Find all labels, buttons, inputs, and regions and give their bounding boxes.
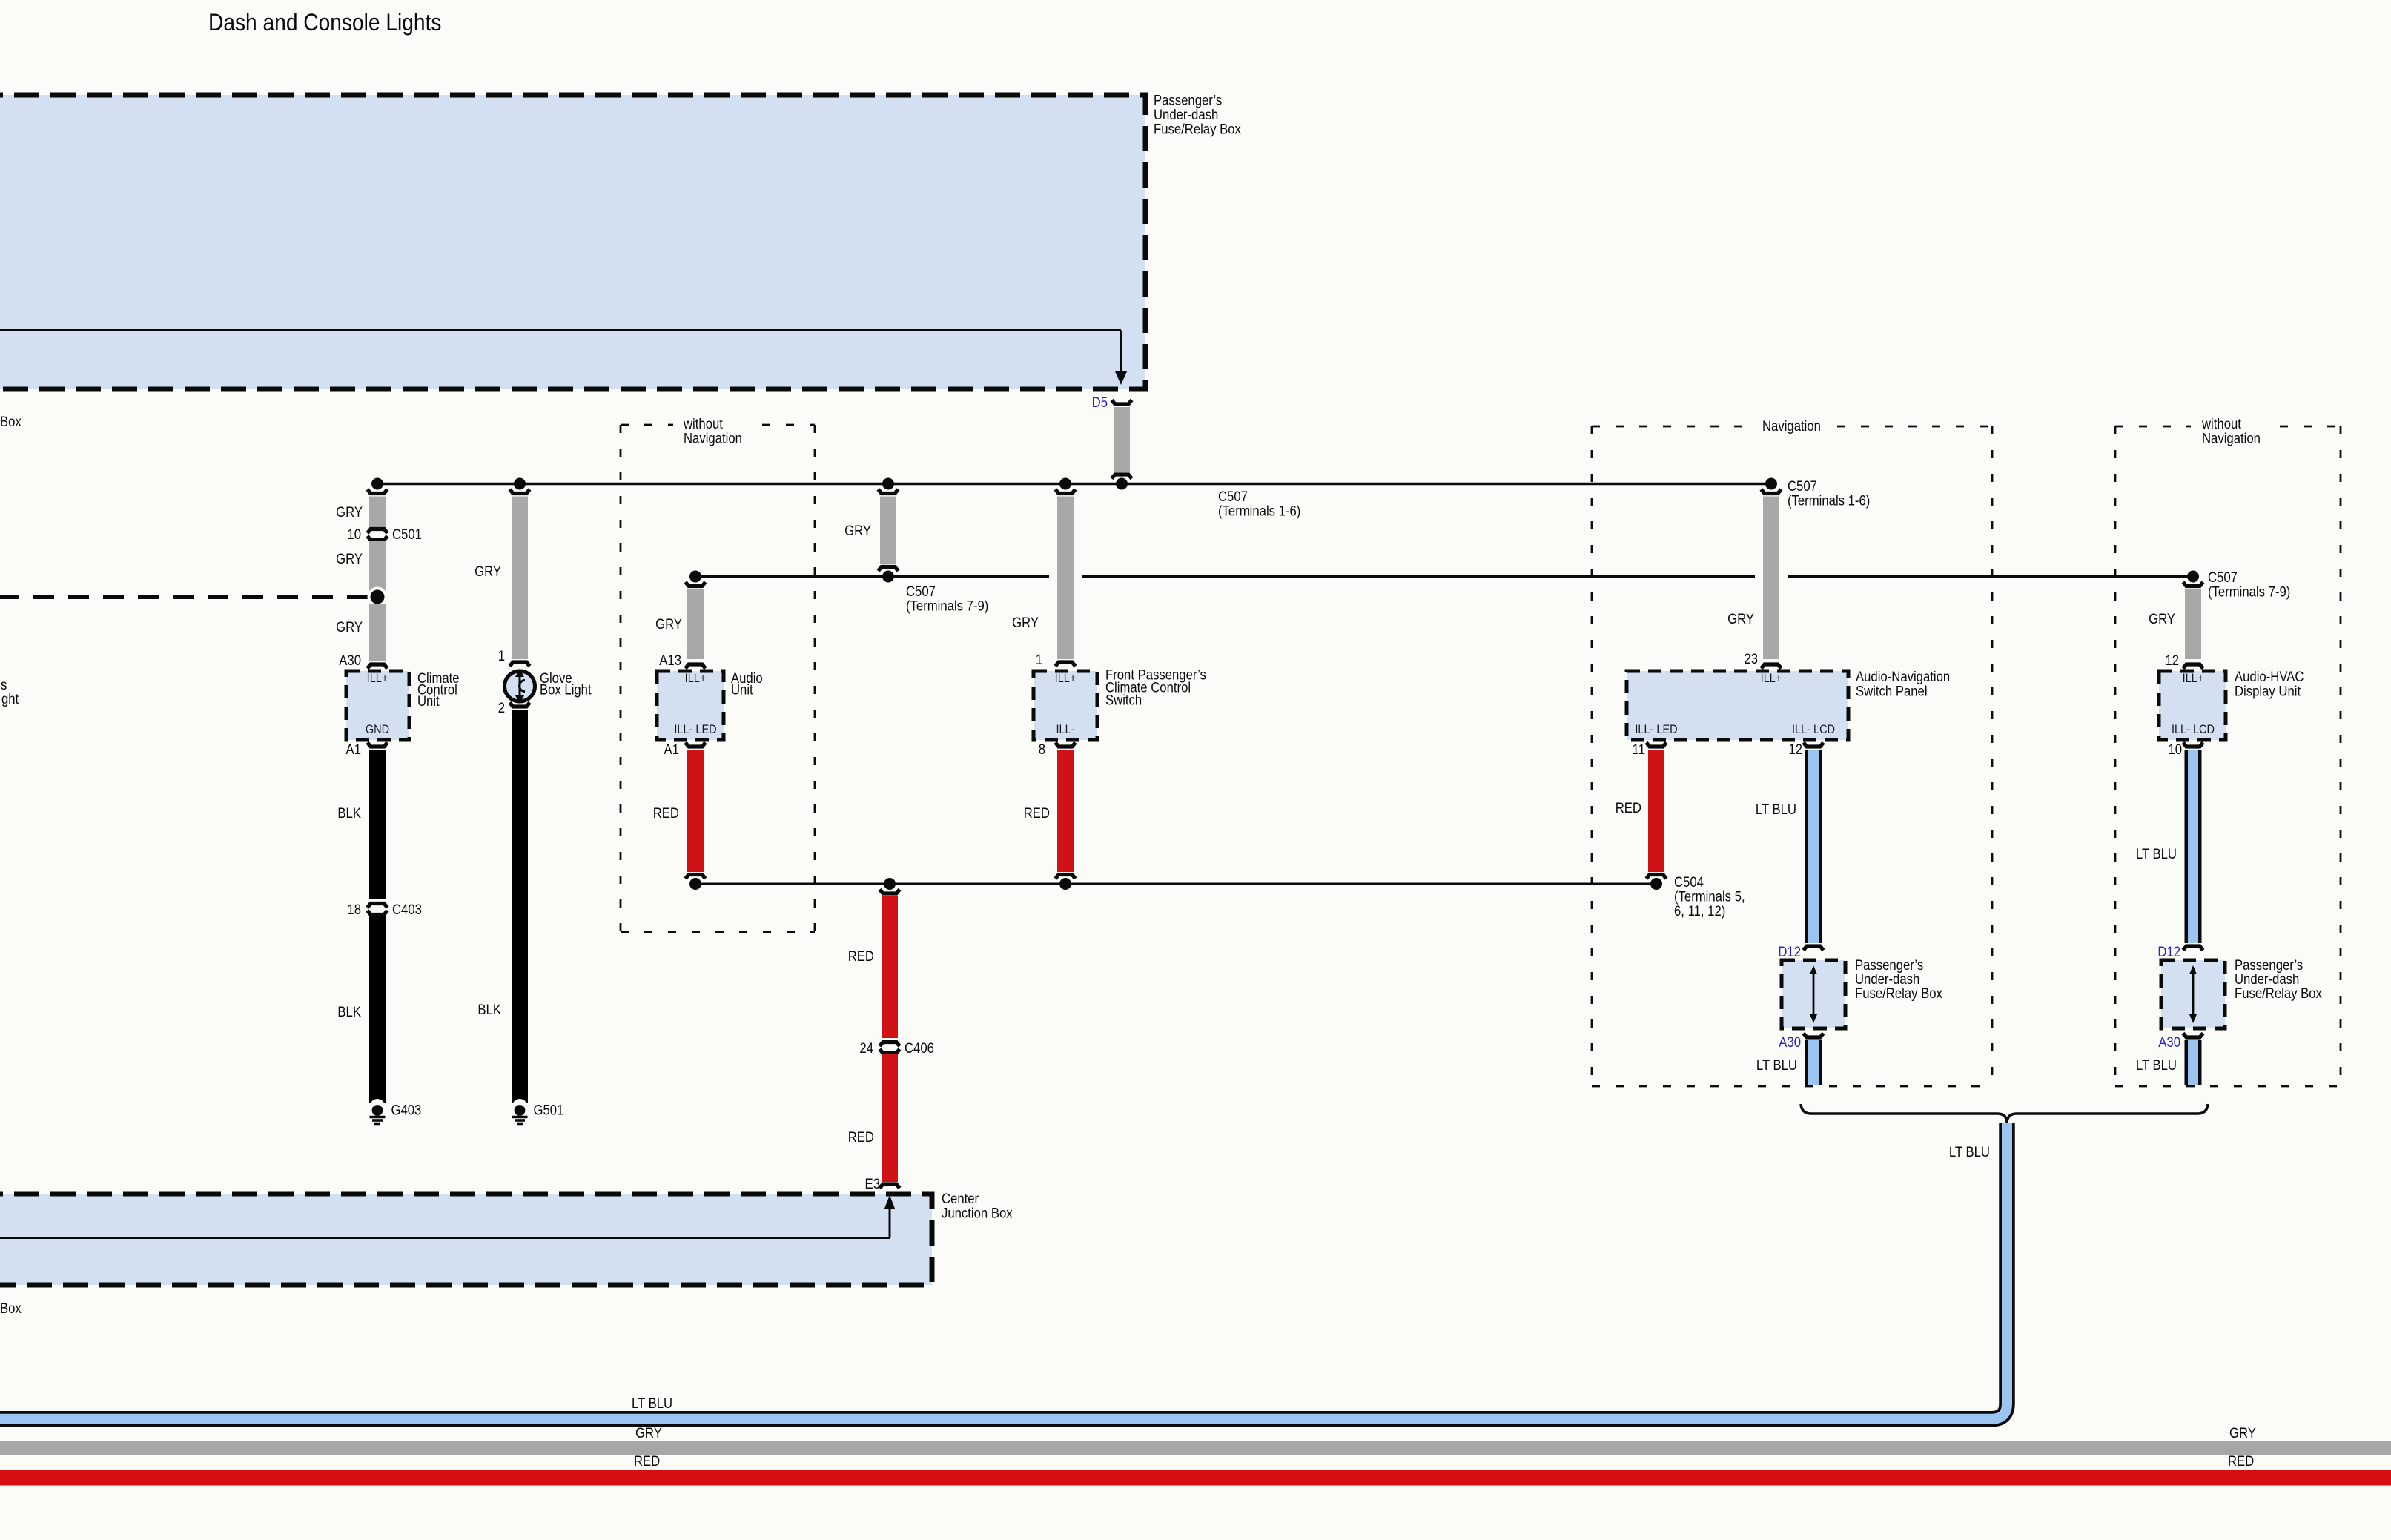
svg-text:GRY: GRY bbox=[336, 619, 363, 635]
svg-text:(Terminals 1-6): (Terminals 1-6) bbox=[1788, 493, 1870, 509]
svg-text:RED: RED bbox=[1616, 800, 1641, 816]
svg-text:C501: C501 bbox=[392, 526, 422, 542]
svg-text:(Terminals 1-6): (Terminals 1-6) bbox=[1218, 503, 1300, 519]
svg-text:C504: C504 bbox=[1674, 874, 1704, 890]
svg-text:G501: G501 bbox=[533, 1103, 563, 1118]
svg-text:Fuse/Relay Box: Fuse/Relay Box bbox=[1855, 985, 1942, 1001]
svg-text:Navigation: Navigation bbox=[1762, 418, 1821, 434]
svg-text:1: 1 bbox=[498, 648, 505, 664]
svg-text:RED: RED bbox=[848, 948, 874, 964]
svg-text:D5: D5 bbox=[1092, 394, 1108, 410]
svg-text:Navigation: Navigation bbox=[684, 431, 742, 446]
svg-text:1: 1 bbox=[1036, 652, 1042, 667]
svg-text:Box: Box bbox=[0, 1301, 22, 1316]
svg-text:Audio-HVAC: Audio-HVAC bbox=[2235, 669, 2304, 684]
svg-text:G403: G403 bbox=[391, 1103, 421, 1118]
svg-text:C507: C507 bbox=[1218, 489, 1248, 504]
svg-text:LT BLU: LT BLU bbox=[632, 1395, 672, 1411]
svg-text:8: 8 bbox=[1039, 741, 1045, 757]
svg-text:D12: D12 bbox=[1778, 944, 1801, 959]
svg-text:Center: Center bbox=[942, 1191, 979, 1206]
svg-text:RED: RED bbox=[634, 1453, 660, 1469]
svg-text:E3: E3 bbox=[865, 1176, 880, 1192]
svg-text:GRY: GRY bbox=[1012, 615, 1039, 630]
svg-text:12: 12 bbox=[1788, 741, 1802, 757]
svg-text:RED: RED bbox=[2228, 1453, 2254, 1469]
svg-text:Switch: Switch bbox=[1105, 693, 1142, 708]
svg-text:GND: GND bbox=[366, 723, 389, 736]
svg-text:D12: D12 bbox=[2157, 944, 2180, 959]
svg-text:24: 24 bbox=[859, 1040, 873, 1056]
svg-text:Junction Box: Junction Box bbox=[942, 1206, 1013, 1221]
svg-text:GRY: GRY bbox=[635, 1425, 662, 1441]
svg-text:GRY: GRY bbox=[1727, 611, 1754, 627]
svg-text:Navigation: Navigation bbox=[2202, 431, 2261, 446]
svg-text:23: 23 bbox=[1744, 651, 1758, 667]
svg-text:GRY: GRY bbox=[2149, 611, 2175, 627]
svg-text:(Terminals 7-9): (Terminals 7-9) bbox=[2208, 584, 2290, 600]
svg-text:A30: A30 bbox=[2158, 1034, 2180, 1050]
svg-text:C406: C406 bbox=[905, 1040, 934, 1056]
svg-text:GRY: GRY bbox=[336, 551, 363, 566]
svg-text:GRY: GRY bbox=[2229, 1425, 2256, 1441]
svg-text:RED: RED bbox=[848, 1129, 874, 1145]
svg-text:BLK: BLK bbox=[477, 1002, 501, 1017]
svg-text:ght: ght bbox=[1, 691, 19, 707]
svg-text:C507: C507 bbox=[906, 584, 936, 599]
svg-text:Passenger’s: Passenger’s bbox=[1154, 93, 1222, 108]
svg-text:ILL+: ILL+ bbox=[367, 672, 388, 685]
svg-text:BLK: BLK bbox=[337, 1004, 361, 1019]
svg-text:Audio-Navigation: Audio-Navigation bbox=[1856, 669, 1950, 684]
svg-text:Under-dash: Under-dash bbox=[1154, 107, 1218, 122]
svg-text:Switch Panel: Switch Panel bbox=[1856, 684, 1928, 699]
svg-text:LT BLU: LT BLU bbox=[2136, 1057, 2177, 1073]
svg-text:10: 10 bbox=[347, 526, 361, 542]
svg-text:A30: A30 bbox=[1779, 1034, 1801, 1050]
svg-text:ILL+: ILL+ bbox=[2183, 672, 2204, 685]
svg-text:LT BLU: LT BLU bbox=[1756, 802, 1796, 817]
svg-text:C403: C403 bbox=[392, 902, 422, 917]
svg-text:RED: RED bbox=[653, 805, 679, 821]
svg-text:Fuse/Relay Box: Fuse/Relay Box bbox=[1154, 122, 1241, 137]
svg-text:(Terminals 7-9): (Terminals 7-9) bbox=[906, 598, 988, 614]
svg-text:without: without bbox=[2201, 416, 2241, 432]
svg-text:ILL- LCD: ILL- LCD bbox=[1792, 723, 1835, 736]
svg-text:GRY: GRY bbox=[844, 523, 871, 538]
svg-text:ILL+: ILL+ bbox=[685, 672, 707, 685]
svg-text:ILL- LED: ILL- LED bbox=[674, 723, 716, 736]
svg-text:without: without bbox=[683, 416, 723, 432]
svg-text:BLK: BLK bbox=[337, 805, 361, 821]
svg-text:LT BLU: LT BLU bbox=[1756, 1057, 1797, 1073]
svg-text:A13: A13 bbox=[659, 652, 681, 668]
svg-text:A30: A30 bbox=[339, 652, 361, 668]
svg-text:GRY: GRY bbox=[336, 504, 363, 520]
svg-text:Unit: Unit bbox=[731, 681, 753, 697]
svg-text:Dash and Console Lights: Dash and Console Lights bbox=[208, 10, 441, 36]
svg-text:ILL-: ILL- bbox=[1056, 723, 1074, 736]
svg-text:2: 2 bbox=[498, 700, 505, 716]
svg-text:LT BLU: LT BLU bbox=[2136, 846, 2177, 862]
svg-text:A1: A1 bbox=[664, 741, 679, 757]
svg-text:RED: RED bbox=[1024, 805, 1050, 821]
svg-text:12: 12 bbox=[2165, 652, 2179, 668]
svg-text:C507: C507 bbox=[2208, 569, 2238, 585]
svg-text:ILL+: ILL+ bbox=[1055, 672, 1077, 685]
svg-text:ILL- LCD: ILL- LCD bbox=[2172, 723, 2215, 736]
svg-text:A1: A1 bbox=[346, 741, 361, 757]
svg-text:6, 11, 12): 6, 11, 12) bbox=[1674, 903, 1725, 919]
svg-text:LT BLU: LT BLU bbox=[1949, 1144, 1990, 1160]
svg-text:(Terminals 5,: (Terminals 5, bbox=[1674, 889, 1745, 905]
svg-text:ILL+: ILL+ bbox=[1761, 672, 1782, 685]
svg-text:Unit: Unit bbox=[417, 693, 440, 709]
svg-text:C507: C507 bbox=[1788, 478, 1817, 494]
svg-text:GRY: GRY bbox=[474, 564, 501, 579]
svg-text:ILL- LED: ILL- LED bbox=[1635, 723, 1677, 736]
svg-text:GRY: GRY bbox=[655, 616, 682, 632]
svg-text:11: 11 bbox=[1633, 741, 1645, 757]
svg-text:Display Unit: Display Unit bbox=[2235, 684, 2301, 699]
svg-text:Box: Box bbox=[0, 414, 22, 429]
svg-text:10: 10 bbox=[2168, 741, 2182, 757]
svg-text:Box Light: Box Light bbox=[540, 681, 592, 697]
svg-text:18: 18 bbox=[347, 902, 361, 917]
svg-text:Fuse/Relay Box: Fuse/Relay Box bbox=[2235, 985, 2322, 1001]
